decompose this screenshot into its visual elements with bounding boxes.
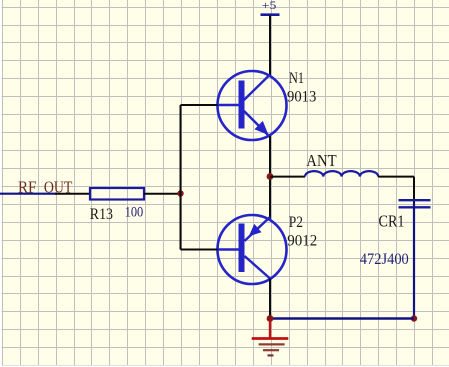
ground bar 2 [259,343,285,345]
transistor N1 emitter arrow [254,121,268,135]
wire bottom ground rail (navy) [270,317,414,319]
svg-text:9012: 9012 [287,233,317,250]
svg-text:472J400: 472J400 [360,251,409,268]
transistor P2 emitter arrow [249,224,262,236]
wire junction to P2 emitter [269,177,271,220]
wire capacitor to bottom junction (navy) [413,203,415,319]
transistor N1 emitter line [244,111,270,137]
wire to N1 base [181,104,218,106]
transistor N1 base stub [218,104,239,106]
junction dot ground node [267,315,274,322]
transistor P2 base bar [239,224,245,273]
ground bar 1 [252,337,289,340]
capacitor CR1 bottom plate [399,206,431,208]
resistor R13 body [90,188,144,200]
wire inductor to corner [378,176,414,178]
svg-text:9013: 9013 [287,89,316,106]
svg-text:ANT: ANT [306,151,337,170]
wire RF OUT to resistor [55,193,90,195]
wire P2 collector to ground junction [269,279,271,319]
junction dot emitters node [267,173,274,180]
transistor P2 collector line [245,256,271,279]
transistor P2 emitter line [245,217,271,241]
ground bar 4 [268,354,274,356]
svg-text:P2: P2 [289,214,303,231]
svg-text:+5: +5 [262,0,277,12]
svg-text:CR1: CR1 [379,212,405,231]
wire to P2 base [181,249,218,251]
svg-text:100: 100 [125,205,144,221]
wire RF OUT left (navy) [0,193,57,195]
wire base vertical [180,105,182,250]
wire corner down to capacitor [413,177,415,203]
transistor N1 base bar [239,81,245,129]
capacitor CR1 top plate [399,199,431,201]
wire resistor to base junction [144,193,181,195]
transistor P2 base stub [218,248,239,250]
transistor Q N1 circle [218,71,287,140]
junction dot base [177,190,183,196]
ground stem [269,321,271,339]
power +5 bar symbol [261,13,280,16]
ground bar 3 [263,349,279,351]
transistor N1 collector line [244,75,270,101]
wire +5 to N1 collector [269,16,271,76]
transistor Q P2 circle [218,215,287,284]
svg-text:N1: N1 [289,70,304,87]
wire N1 emitter to junction [269,136,271,177]
svg-text:R13: R13 [90,206,113,223]
wire junction to inductor [270,176,305,178]
junction dot bottom right [411,315,417,321]
inductor ANT coil [305,171,378,177]
